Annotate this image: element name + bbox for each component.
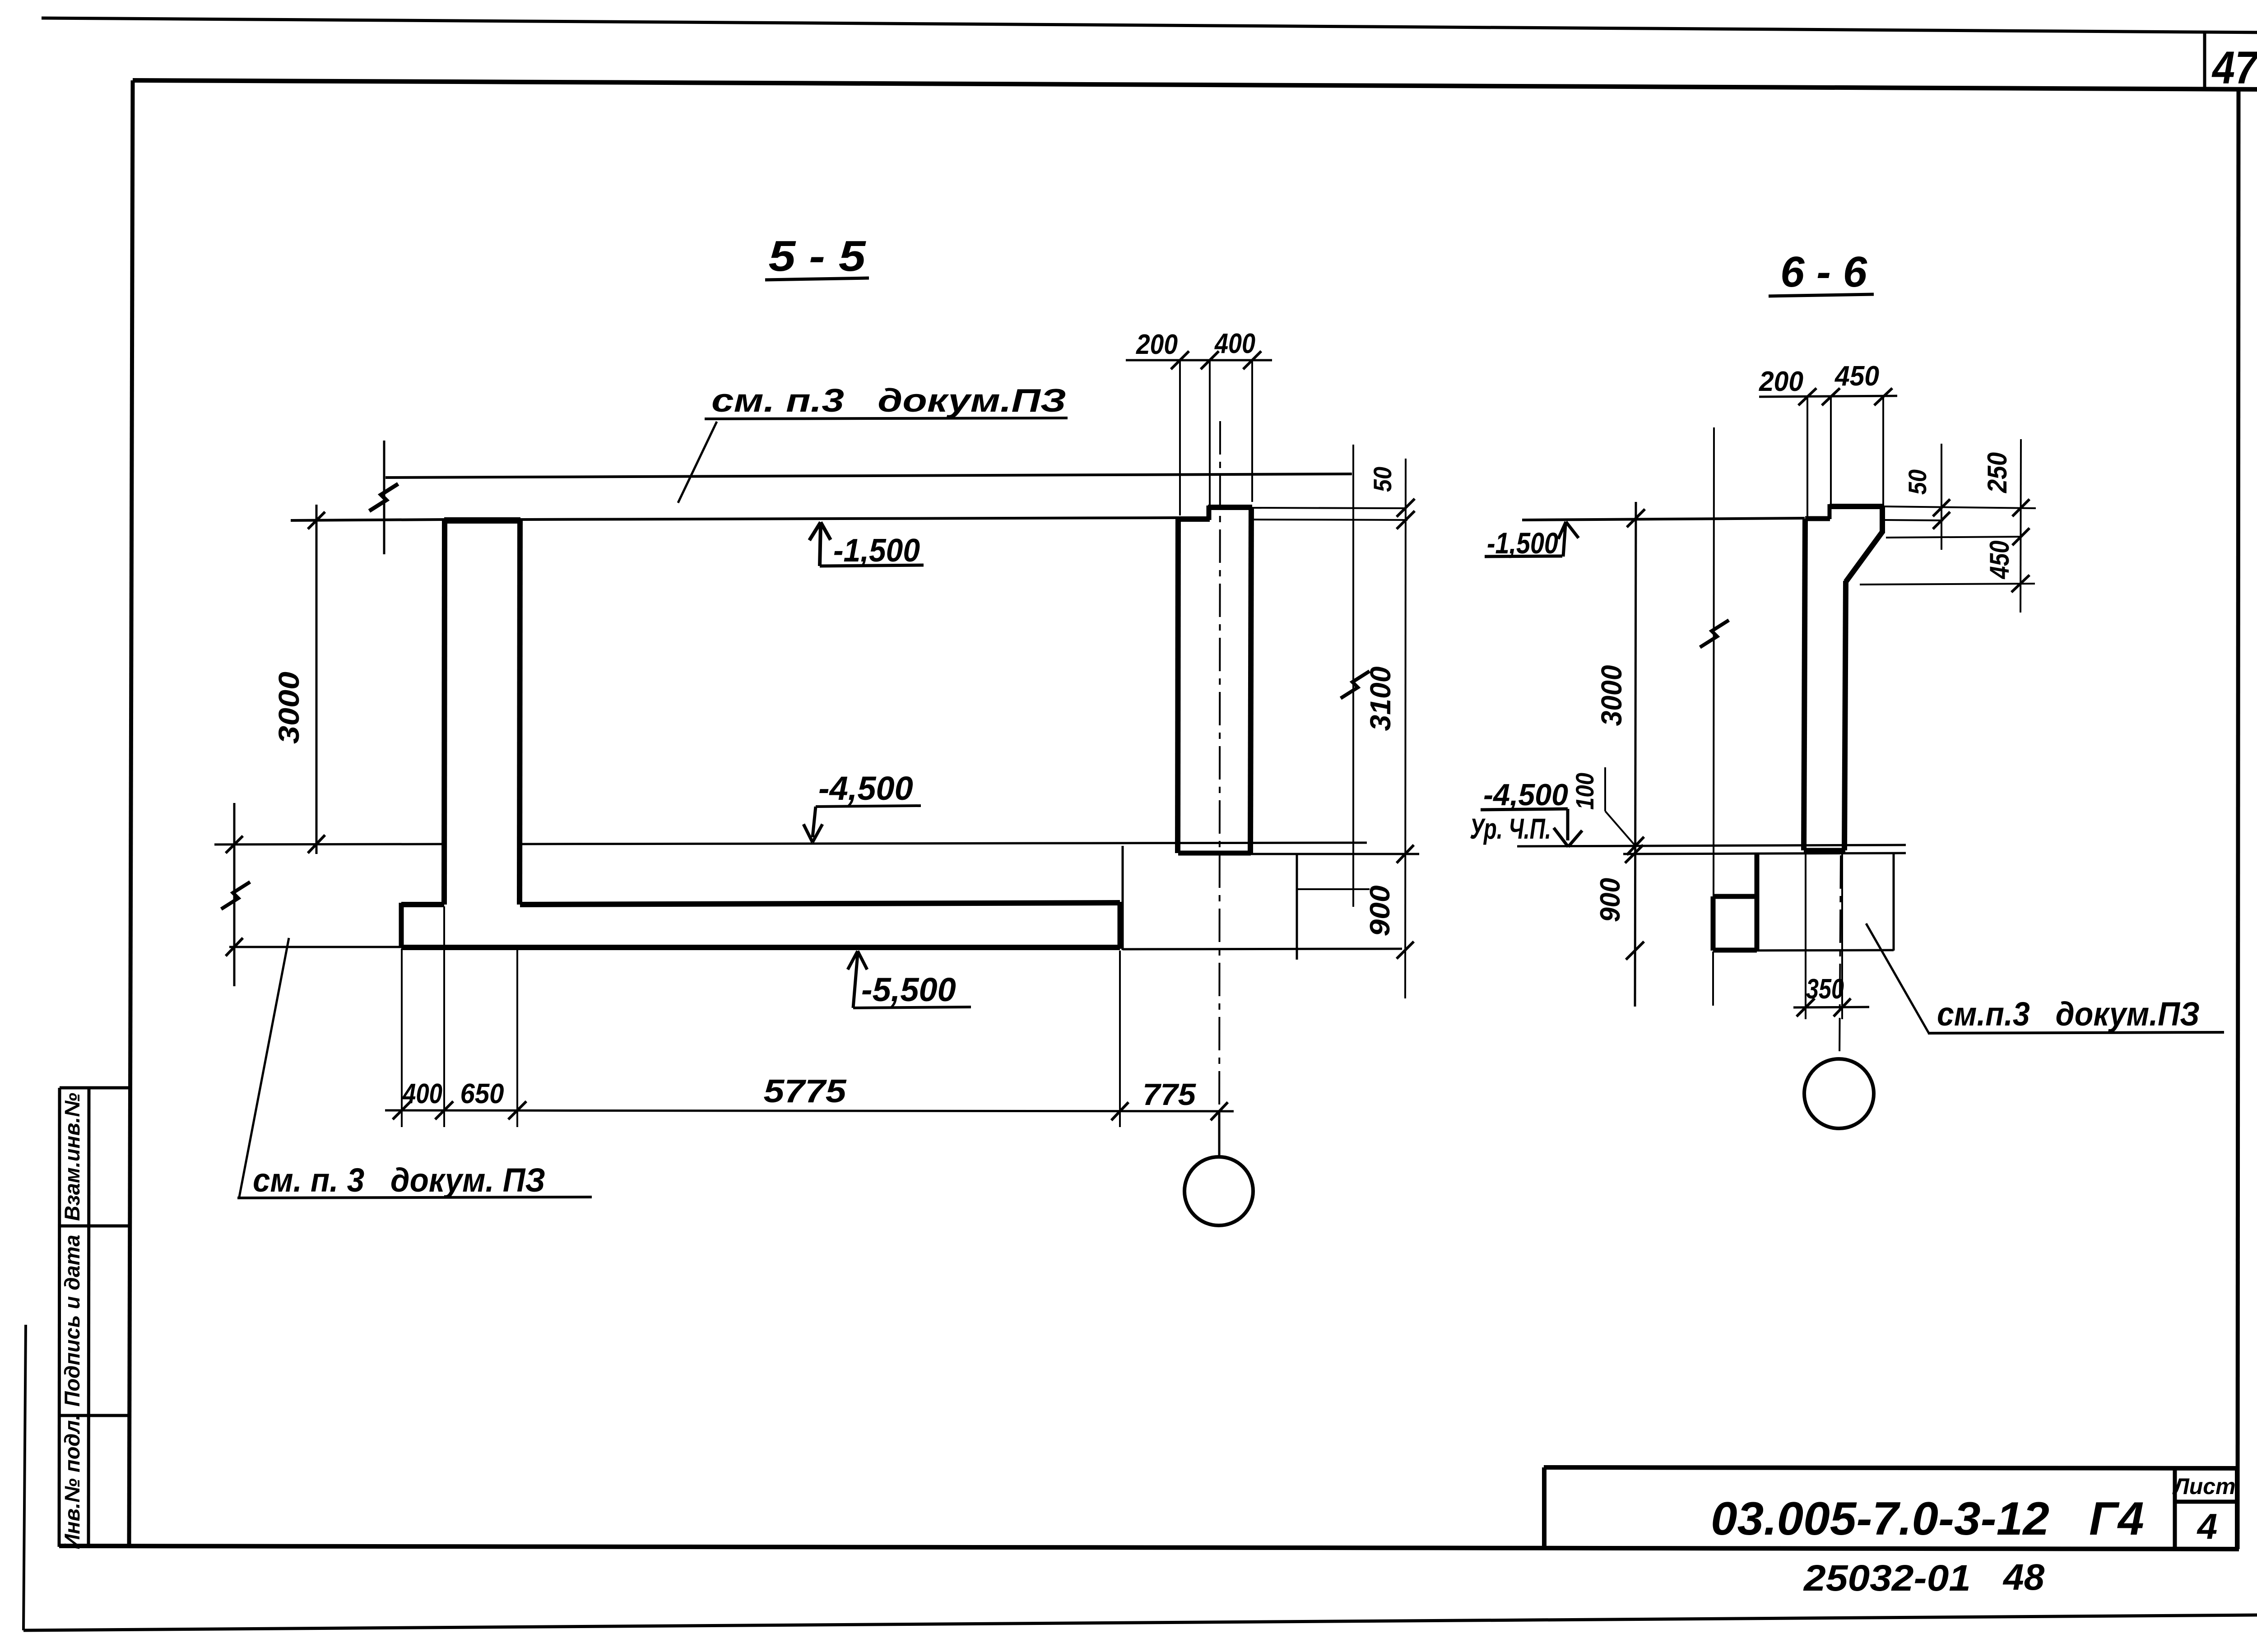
ext line wall step up (6-6): [1830, 396, 1832, 506]
svg-text:3100: 3100: [1364, 667, 1397, 731]
svg-text:см.п.3 докум.ПЗ: см.п.3 докум.ПЗ: [1937, 995, 2200, 1033]
svg-text:3000: 3000: [1595, 665, 1628, 726]
wall right face upper (6-6): [1880, 506, 1885, 533]
inner frame bottom: [59, 1546, 2239, 1549]
small ext bar right of footing (5-5): [1296, 888, 1370, 890]
svg-text:Лист: Лист: [2172, 1474, 2235, 1499]
tick -4.500 level (6-6): [1627, 837, 1644, 855]
pilaster centerline (5-5): [1219, 421, 1220, 1155]
note leader (6-6): [1866, 923, 1929, 1033]
svg-text:4: 4: [2197, 1506, 2218, 1546]
dimension line 350 (6-6): [1793, 1007, 1869, 1007]
svg-text:6 - 6: 6 - 6: [1780, 248, 1867, 296]
elevation mark -4.500 drop arrow (6-6): [1554, 809, 1582, 847]
pilaster top-left ledge (5-5): [1178, 516, 1210, 522]
ext of ledge corner level right (6-6): [1886, 537, 2021, 538]
dim line 50 (6-6): [1941, 444, 1942, 550]
wall right face lower (6-6): [1844, 581, 1846, 850]
footing block left (6-6): [1711, 896, 1716, 951]
dimension line 3000 (5-5): [316, 505, 318, 854]
chord end extension line (5-5): [383, 441, 385, 554]
stamp strip top edge: [60, 1086, 130, 1090]
footing block right face (6-6): [1755, 853, 1760, 951]
svg-text:200: 200: [1759, 366, 1803, 397]
svg-text:900: 900: [1365, 886, 1396, 937]
top note leader (5-5): [678, 422, 717, 503]
svg-text:50: 50: [1903, 469, 1932, 495]
svg-text:400: 400: [402, 1078, 442, 1109]
elevation mark -5.500 underline (5-5): [853, 1007, 971, 1008]
elevation mark -1.500 underline (6-6): [1485, 556, 1562, 557]
tick 350 left (6-6): [1797, 998, 1815, 1016]
break mark on ext line: [1341, 671, 1370, 698]
leader for 100 slant (6-6): [1605, 811, 1635, 845]
inner frame top: [133, 80, 2257, 89]
tick 250 top (6-6): [2012, 499, 2029, 516]
break mark on lower-left dim line: [221, 882, 250, 909]
grid bubble circle (6-6): [1804, 1059, 1874, 1128]
existing slab chord line (5-5): [385, 474, 1352, 478]
wall centerline (6-6): [1839, 855, 1841, 1059]
svg-text:48: 48: [2002, 1557, 2045, 1598]
svg-text:см. п. 3 докум. ПЗ: см. п. 3 докум. ПЗ: [253, 1161, 545, 1199]
tick 350 right (6-6): [1834, 998, 1851, 1016]
tick 50 top (5-5): [1397, 499, 1415, 517]
wall ledge step (6-6): [1828, 504, 1832, 519]
top note underline (5-5): [705, 418, 1068, 419]
tick -1.500 level (6-6): [1627, 509, 1645, 527]
pilaster footing top line (5-5): [1251, 853, 1419, 855]
ext line wall right face up (6-6): [1882, 396, 1884, 505]
slab top right of wall (5-5): [520, 903, 1120, 905]
pilaster ledge step (5-5): [1207, 506, 1212, 520]
level line -5.500 thin left part: [229, 946, 402, 948]
svg-text:03.005-7.0-3-12: 03.005-7.0-3-12: [1711, 1493, 2049, 1545]
svg-text:900: 900: [1595, 878, 1626, 922]
pilaster bottom edge (5-5): [1178, 851, 1251, 856]
wall face ext line with break (6-6): [1714, 427, 1714, 895]
top dimension line 200/450 (6-6): [1759, 396, 1897, 397]
pilaster footing bottom line (5-5): [1123, 949, 1402, 949]
footing top line (6-6): [1623, 853, 1906, 854]
bottom dimension line (5-5): [385, 1110, 1234, 1111]
grid bubble circle (5-5): [1184, 1157, 1253, 1225]
section title 6-6 underline: [1769, 294, 1874, 296]
pilaster footing left edge (5-5): [1122, 846, 1124, 950]
svg-text:25032-01: 25032-01: [1803, 1558, 1971, 1599]
tick 200 left (6-6): [1798, 388, 1816, 405]
inner frame right: [2238, 89, 2238, 1549]
level line -4.500 (6-6): [1517, 845, 1906, 846]
page number box left edge: [2203, 33, 2206, 89]
svg-text:3000: 3000: [273, 672, 305, 744]
title block list cell split: [2175, 1500, 2237, 1504]
tick 3000 top: [308, 512, 325, 529]
svg-text:-5,500: -5,500: [861, 971, 956, 1008]
grid bubble stem (5-5): [1218, 1110, 1221, 1157]
right dimension line 50/3100/900 (5-5): [1405, 459, 1406, 998]
inner frame left: [129, 80, 133, 1548]
break mark on wall ext (6-6): [1700, 620, 1729, 647]
section title 5-5 underline: [765, 278, 869, 280]
tick lower-left bottom: [226, 938, 243, 956]
svg-text:Взам.инв.№: Взам.инв.№: [60, 1093, 84, 1221]
left dimension line 3000/900 (6-6): [1635, 502, 1636, 1007]
leader for 100 (6-6): [1604, 767, 1606, 811]
title block list divider: [2173, 1468, 2177, 1548]
elevation mark -4.500 underline (6-6): [1481, 809, 1568, 810]
tick 775 right: [1211, 1102, 1228, 1120]
elevation mark -4.500 arrow (5-5): [803, 807, 822, 842]
ext line wall left face: [443, 906, 445, 1127]
pilaster top-right edge (5-5): [1208, 505, 1252, 510]
svg-text:Инв.№ подл.: Инв.№ подл.: [60, 1414, 84, 1549]
elevation mark -1.500 underline (5-5): [820, 565, 924, 566]
svg-text:650: 650: [460, 1078, 504, 1109]
wall right face (5-5): [520, 519, 520, 905]
svg-text:Ур. Ч.П.: Ур. Ч.П.: [1470, 812, 1551, 845]
wall top edge (5-5): [444, 517, 520, 524]
footing block bottom (6-6): [1713, 948, 1757, 953]
sheet outer border top: [42, 18, 2257, 32]
note underline (6-6): [1928, 1032, 2224, 1033]
svg-text:Г4: Г4: [2089, 1493, 2144, 1545]
wall left face (5-5): [444, 519, 445, 905]
svg-text:400: 400: [1214, 328, 1255, 359]
pilaster right face (5-5): [1250, 507, 1251, 853]
level line -4.500 left part (5-5): [214, 844, 445, 845]
svg-text:47: 47: [2211, 42, 2257, 93]
svg-text:450: 450: [1984, 541, 2015, 580]
break mark on chord extension: [369, 484, 398, 511]
wall top-right edge (6-6): [1830, 504, 1884, 509]
tick 200/450 (6-6): [1822, 388, 1840, 405]
svg-text:50: 50: [1368, 467, 1397, 492]
title block outline: [1544, 1467, 2238, 1548]
tick 400 right: [1243, 351, 1261, 369]
tick 650/5775: [508, 1101, 526, 1119]
ext line pilaster step: [1209, 360, 1211, 515]
tick footing bottom (6-6): [1626, 942, 1644, 960]
ext line wall right face: [516, 949, 518, 1127]
wall bottom edge (6-6): [1804, 848, 1845, 853]
tick 3000 bottom: [308, 835, 325, 853]
stamp strip cell divider 1: [60, 1225, 130, 1228]
footing left step edge (5-5): [399, 903, 404, 947]
level line -1.500 right part (5-5): [520, 518, 1178, 520]
slab right edge (5-5): [1118, 902, 1123, 949]
pilaster top dimension line 200/400 (5-5): [1126, 359, 1272, 362]
stamp strip divider: [88, 1088, 89, 1547]
footing left step top (5-5): [401, 902, 444, 907]
tick 50 bottom (6-6): [1933, 512, 1950, 529]
slab bottom (5-5): [401, 945, 1120, 950]
tick 450 right (6-6): [1874, 388, 1892, 405]
thin ext of bearing level right (6-6): [1885, 520, 1943, 520]
thin ext of -1.500 level right of pilaster: [1251, 520, 1407, 520]
footing block top (6-6): [1713, 894, 1757, 899]
level line -1.500 left part (5-5): [291, 520, 445, 520]
stamp strip cell divider 2: [60, 1414, 130, 1417]
wall haunch diagonal (6-6): [1846, 531, 1883, 582]
tick 400 left: [393, 1101, 411, 1119]
level line -4.500 right part (5-5): [520, 843, 1367, 844]
dim line 250/450 (6-6): [2020, 439, 2021, 613]
bottom note leader (5-5): [239, 938, 289, 1197]
thin ext of wall top level right (6-6): [1884, 506, 2036, 508]
tick 200/400: [1201, 351, 1219, 369]
tick 250 bottom (6-6): [2012, 528, 2029, 545]
tick 50 top (6-6): [1933, 499, 1950, 516]
tick 400/650: [435, 1101, 453, 1119]
wall top-left ledge (6-6): [1805, 516, 1830, 521]
stamp strip left edge: [59, 1088, 60, 1547]
svg-text:-1,500: -1,500: [833, 533, 920, 569]
tick 3100 bottom (5-5): [1397, 845, 1414, 863]
ext line wall left face up (6-6): [1807, 396, 1808, 517]
tick lower-left top: [226, 836, 243, 853]
svg-text:200: 200: [1136, 329, 1178, 360]
svg-text:см. п.3 докум.ПЗ: см. п.3 докум.ПЗ: [711, 383, 1066, 419]
level line -1.500 (6-6): [1522, 518, 1805, 520]
ext line step edge: [401, 949, 403, 1127]
ext line wall left face down (6-6): [1805, 852, 1807, 1019]
sheet outer border left: [23, 1325, 26, 1630]
svg-text:-4,500: -4,500: [1483, 778, 1568, 812]
sheet outer border bottom: [23, 1615, 2257, 1630]
svg-text:5775: 5775: [764, 1073, 847, 1109]
elevation mark -1.500 arrow (6-6): [1558, 522, 1579, 557]
footing bottom line (6-6): [1713, 950, 1894, 951]
elevation mark -5.500 arrow (5-5): [848, 951, 867, 1008]
svg-text:775: 775: [1142, 1077, 1196, 1112]
tick 5775/775: [1111, 1102, 1128, 1120]
pilaster left face (5-5): [1178, 517, 1178, 853]
ext line pilaster left face up: [1179, 360, 1181, 515]
wall ext below block (6-6): [1712, 951, 1714, 1006]
svg-text:250: 250: [1982, 452, 2012, 493]
wall left face (6-6): [1804, 519, 1805, 850]
tick 450 bottom (6-6): [2011, 575, 2029, 592]
ext of haunch bottom level right (6-6): [1860, 584, 2035, 585]
pilaster footing right edge (5-5): [1296, 854, 1298, 960]
tick footing-top level (6-6): [1625, 845, 1643, 863]
svg-text:Подпись и дата: Подпись и дата: [60, 1235, 84, 1407]
svg-text:450: 450: [1834, 361, 1879, 392]
footing right edge (6-6): [1893, 853, 1895, 951]
svg-text:350: 350: [1806, 974, 1844, 1005]
thin ext of pilaster top level right: [1252, 508, 1404, 508]
tick 900 bottom (5-5): [1397, 942, 1414, 959]
tick 200 left: [1171, 351, 1189, 369]
elevation mark -1.500 arrow (5-5): [809, 522, 831, 566]
ext line slab right edge: [1119, 951, 1121, 1127]
bottom note underline (5-5): [237, 1197, 592, 1198]
ext line pilaster right face up: [1251, 360, 1253, 502]
ext line with break right of pilaster: [1352, 445, 1354, 907]
svg-text:5 - 5: 5 - 5: [769, 232, 867, 280]
svg-text:-4,500: -4,500: [818, 770, 913, 807]
elevation mark -4.500 underline (5-5): [816, 806, 921, 807]
ext line wall right face down (6-6): [1841, 852, 1843, 1019]
svg-text:100: 100: [1570, 773, 1599, 810]
tick 50 bottom (5-5): [1397, 511, 1415, 529]
lower-left dimension line (5-5): [233, 803, 236, 986]
